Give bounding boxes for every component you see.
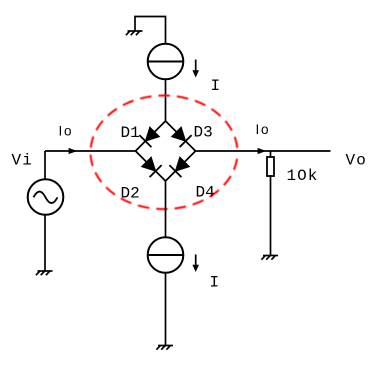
arrow Io (left, pointing right) bbox=[69, 148, 78, 154]
svg-text:D1: D1 bbox=[121, 124, 140, 142]
svg-text:1Ok: 1Ok bbox=[287, 167, 319, 185]
svg-text:Vi: Vi bbox=[12, 151, 34, 169]
ground (below Vi) bbox=[36, 271, 53, 275]
svg-text:I: I bbox=[211, 77, 221, 95]
svg-text:I: I bbox=[210, 274, 220, 292]
svg-text:D3: D3 bbox=[194, 123, 213, 141]
current source I1 (top) bbox=[148, 44, 184, 80]
wire from Vi source to ground bbox=[44, 215, 46, 271]
wire bridge side top-left bbox=[136, 121, 166, 151]
svg-text:Io: Io bbox=[59, 123, 74, 138]
ground (top left) bbox=[126, 31, 143, 35]
wire bridge side top-right bbox=[166, 121, 196, 151]
svg-text:Io: Io bbox=[256, 122, 271, 137]
wire from bridge bottom node to bottom current source bbox=[165, 181, 167, 237]
arrow for current I (bottom, pointing down) bbox=[192, 255, 199, 273]
wire from resistor to ground bbox=[270, 176, 272, 256]
diode D3 (top node to right node) bbox=[172, 127, 192, 147]
wire input (Vi corner to bridge left node) bbox=[45, 150, 136, 152]
resistor R1 10k bbox=[267, 157, 274, 176]
ground (bottom) bbox=[156, 346, 173, 350]
diode D4 (right node to bottom node) bbox=[169, 157, 189, 177]
svg-text:D2: D2 bbox=[121, 184, 140, 202]
diode D2 (left node to bottom node) bbox=[142, 157, 162, 177]
voltage source Vi (sine source) bbox=[28, 179, 64, 215]
wire from input corner down to Vi source bbox=[44, 151, 46, 179]
red dashed ellipse (bridge highlight) bbox=[91, 96, 238, 210]
wire stub from output wire to resistor bbox=[270, 151, 272, 157]
arrow Io (right, pointing right) bbox=[258, 148, 267, 154]
current source I2 (bottom) bbox=[148, 237, 184, 273]
wire from bottom current source to ground bbox=[165, 273, 167, 346]
svg-text:D4: D4 bbox=[196, 183, 215, 201]
wire from top ground to top current source bbox=[135, 17, 166, 44]
wire bridge side bottom-left bbox=[136, 151, 166, 181]
wire from top current source to bridge top node bbox=[165, 79, 167, 121]
svg-text:Vo: Vo bbox=[346, 151, 368, 169]
arrow for current I (top, pointing down) bbox=[192, 60, 199, 78]
wire output (bridge right node to output end) bbox=[196, 150, 331, 152]
wire bridge side bottom-right bbox=[166, 151, 196, 181]
diode D1 (top node to left node) bbox=[139, 127, 159, 147]
ground (below resistor) bbox=[261, 256, 278, 260]
